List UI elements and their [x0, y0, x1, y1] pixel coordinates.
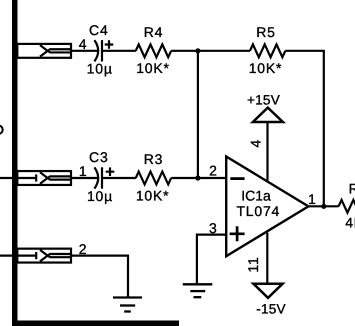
svg-text:10µ: 10µ: [87, 61, 113, 77]
resistor R3: [136, 172, 171, 185]
connector contact, jack sleeve (pin 2) with switch tick: [0, 249, 71, 263]
op-amp non-inverting input plus sign: [230, 226, 245, 241]
cut-off character fragment at left edge: [0, 126, 3, 134]
wire: C3 to R3: [102, 177, 136, 179]
wire: connector 4 to C4: [71, 50, 97, 52]
svg-text:4: 4: [247, 139, 263, 148]
resistor R6 (clipped at image edge): [339, 200, 355, 213]
svg-text:R6: R6: [349, 181, 355, 197]
svg-text:1: 1: [308, 191, 317, 207]
module outline: [12, 0, 179, 326]
svg-text:IC1a: IC1a: [241, 188, 271, 204]
svg-text:4K7: 4K7: [345, 214, 355, 230]
capacitor C3: [94, 167, 114, 188]
resistor R4: [136, 44, 171, 57]
node B junction dot: [195, 175, 200, 180]
svg-text:10K*: 10K*: [136, 187, 170, 203]
ground symbol (pin 3): [183, 284, 213, 297]
wire: +15V supply down to op-amp top edge (pin 4): [266, 122, 268, 181]
svg-text:11: 11: [245, 256, 261, 272]
op-amp inverting input minus sign: [230, 177, 244, 180]
wire: C4 to R4: [102, 50, 136, 52]
svg-text:+15V: +15V: [247, 92, 280, 107]
svg-text:2: 2: [209, 163, 218, 179]
wire: pin 3 to ground: [197, 235, 227, 285]
svg-text:C3: C3: [89, 149, 109, 165]
wire: op-amp bottom edge (pin 11) down to -15V supply: [266, 233, 268, 284]
node C junction dot (output): [321, 204, 326, 209]
-15V supply symbol: [253, 284, 282, 298]
svg-text:10K*: 10K*: [249, 60, 283, 76]
svg-text:4: 4: [79, 36, 88, 52]
svg-text:TL074: TL074: [236, 203, 280, 219]
op-amp IC1a triangle: [226, 157, 308, 257]
wire: node A down to node B: [197, 51, 199, 178]
wire: R5 to feedback corner down to output node: [285, 51, 323, 207]
wire: R4 to node A to R5: [171, 50, 250, 52]
svg-text:-15V: -15V: [256, 302, 286, 317]
wire: op-amp output to node C and R6: [308, 205, 338, 207]
+15V supply symbol: [253, 108, 283, 122]
ground symbol (connector 2): [113, 298, 142, 312]
svg-text:C4: C4: [89, 22, 109, 38]
wire: connector 1 to C3: [71, 177, 97, 179]
svg-text:1: 1: [79, 163, 88, 179]
connector contact, jack ring (pin 1) with switch tick: [0, 171, 71, 185]
connector contact, jack tip (pin 4): [17, 44, 71, 58]
svg-text:R4: R4: [144, 24, 164, 40]
wire: connector 2 to ground: [71, 256, 128, 297]
capacitor C4: [94, 40, 113, 61]
svg-text:10K*: 10K*: [136, 60, 170, 76]
svg-text:R3: R3: [144, 151, 164, 167]
svg-text:R5: R5: [256, 24, 276, 40]
svg-text:2: 2: [79, 241, 88, 257]
svg-text:10µ: 10µ: [87, 188, 113, 204]
svg-text:3: 3: [209, 220, 218, 236]
wire: R3 to node B to op-amp pin 2: [171, 177, 227, 179]
node A junction dot: [195, 48, 200, 53]
resistor R5: [250, 44, 285, 57]
